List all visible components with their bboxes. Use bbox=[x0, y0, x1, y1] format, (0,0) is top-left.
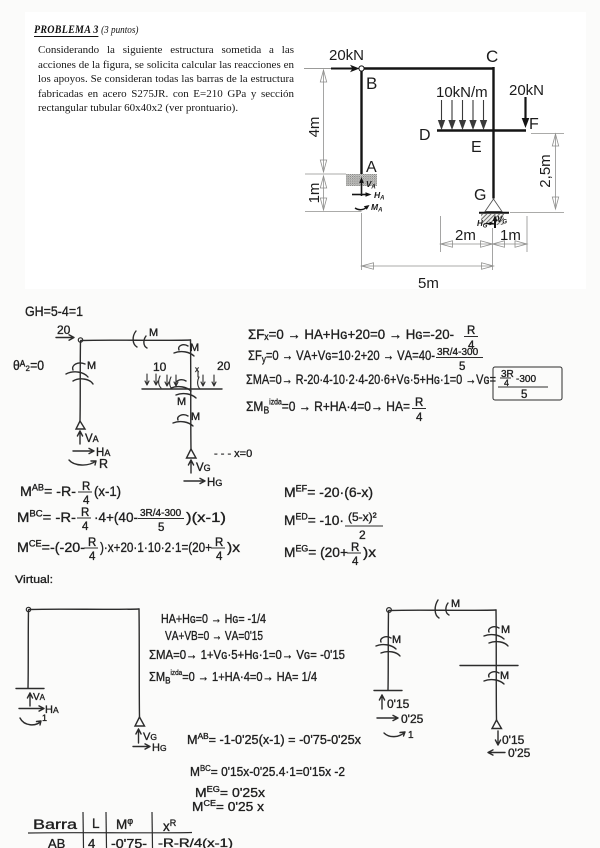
sk2 top chord bbox=[29, 608, 139, 611]
dim 4m line bbox=[323, 70, 325, 172]
svg-text:M: M bbox=[500, 670, 509, 682]
svg-text:HG: HG bbox=[152, 742, 167, 754]
support A hatched block bbox=[346, 174, 377, 186]
sk3 arrow left 0'25 bbox=[488, 750, 505, 755]
svg-text:(5-x)²: (5-x)² bbox=[348, 510, 377, 524]
member C-G (right column) bbox=[492, 67, 494, 199]
M_CE fraction bars bbox=[84, 547, 98, 549]
svg-text:MBC= -R-: MBC= -R- bbox=[17, 509, 76, 526]
svg-text:R: R bbox=[82, 481, 90, 493]
svg-text:1: 1 bbox=[42, 713, 47, 723]
sk1 R moment arc bbox=[69, 460, 96, 465]
sk3 M curl top chord bbox=[435, 600, 449, 618]
svg-text:MAB= -1-0'25(x-1) = -0'75-0'25: MAB= -1-0'25(x-1) = -0'75-0'25x bbox=[187, 731, 361, 747]
PRINTED DIAGRAM bbox=[304, 47, 544, 230]
svg-text:MA: MA bbox=[371, 202, 382, 214]
svg-text:-0'75-: -0'75- bbox=[111, 836, 147, 848]
svg-text:VA: VA bbox=[85, 433, 99, 445]
svg-text:1m: 1m bbox=[306, 183, 323, 204]
table vline 3 bbox=[151, 812, 154, 848]
sk1 pin circle at B bbox=[78, 338, 82, 342]
M_EG fraction bar bbox=[347, 552, 361, 554]
svg-text:20kN: 20kN bbox=[509, 82, 544, 99]
svg-text:1: 1 bbox=[408, 730, 414, 741]
svg-text:G: G bbox=[474, 187, 486, 204]
svg-text:2m: 2m bbox=[455, 227, 476, 244]
svg-text:5: 5 bbox=[158, 522, 164, 534]
reaction V_A arrow bbox=[361, 180, 363, 196]
dim 1m line (left) bbox=[323, 176, 325, 210]
sk1 right column bbox=[190, 340, 193, 449]
svg-text:4: 4 bbox=[416, 412, 423, 424]
sk1 M curl right column top bbox=[174, 345, 194, 356]
sk1 M curl left column bbox=[66, 363, 93, 384]
TABLE bbox=[33, 816, 233, 848]
sk3 arrow up 0'15 bbox=[379, 695, 384, 709]
svg-text:HG: HG bbox=[207, 477, 222, 489]
support G pin triangle bbox=[485, 199, 502, 212]
sk3 M curl right column low bbox=[484, 672, 504, 684]
extension line top of 2,5m bbox=[531, 133, 564, 135]
sk3 right column bbox=[495, 610, 498, 720]
svg-text:0'25: 0'25 bbox=[401, 712, 424, 726]
svg-text:- - - x=0: - - - x=0 bbox=[214, 448, 252, 460]
svg-text:MCE=-(-20-: MCE=-(-20- bbox=[17, 539, 85, 556]
dim 5m line bbox=[362, 265, 494, 267]
sk3 arrow down 0'15 bbox=[495, 731, 500, 745]
svg-text:)(x-1): )(x-1) bbox=[186, 509, 226, 525]
svg-text:4: 4 bbox=[88, 836, 95, 848]
svg-text:(x-1): (x-1) bbox=[94, 483, 121, 499]
M_ED fraction bar bbox=[345, 525, 383, 527]
table vline 2 bbox=[105, 812, 108, 848]
svg-text:4: 4 bbox=[89, 551, 96, 563]
svg-text:M: M bbox=[177, 396, 186, 408]
reaction M_A moment arc bbox=[355, 207, 367, 210]
svg-text:MED= -10·: MED= -10· bbox=[284, 512, 344, 529]
svg-text:4: 4 bbox=[216, 551, 223, 563]
sk3 M curl right column top bbox=[484, 627, 508, 646]
svg-text:R: R bbox=[81, 507, 89, 519]
svg-text:Barra: Barra bbox=[33, 817, 78, 832]
svg-text:θᴬ₂=0: θᴬ₂=0 bbox=[13, 358, 44, 373]
member B-C (top chord) bbox=[362, 67, 494, 69]
svg-text:5m: 5m bbox=[418, 275, 439, 292]
svg-text:ΣFy=0 → VА+Vɢ=10·2+20 → VА=40-: ΣFy=0 → VА+Vɢ=10·2+20 → VА=40- bbox=[248, 347, 435, 366]
svg-text:ΣMА=0→ R-20·4-10·2·4-20·6+Vɢ·5: ΣMА=0→ R-20·4-10·2·4-20·6+Vɢ·5+Hɢ·1=0 →V… bbox=[246, 371, 496, 387]
sk2 V_G arrow bbox=[136, 729, 141, 743]
svg-text:·4+(40-: ·4+(40- bbox=[94, 509, 138, 525]
svg-text:R: R bbox=[88, 537, 96, 549]
sk3 fixed base bbox=[374, 690, 402, 692]
M-EQUATIONS LEFT bbox=[17, 481, 240, 563]
svg-text:4: 4 bbox=[83, 495, 90, 507]
load 20kN at F: arrow bbox=[524, 97, 526, 121]
svg-text:R: R bbox=[415, 397, 423, 409]
svg-text:)·x+20·1·10·2·1=(20+: )·x+20·1·10·2·1=(20+ bbox=[100, 539, 212, 555]
sk2 H_A arrow bbox=[19, 706, 44, 711]
sk1 M curl right column mid bbox=[171, 380, 196, 398]
svg-text:M: M bbox=[451, 598, 460, 610]
svg-text:MEF= -20·(6-x): MEF= -20·(6-x) bbox=[284, 484, 373, 501]
sk1 support triangle A bbox=[76, 421, 85, 429]
svg-text:0'15: 0'15 bbox=[502, 733, 525, 747]
HANDWRITTEN WORK bbox=[13, 303, 83, 373]
sk1 M curl right column low bbox=[173, 415, 193, 426]
sk3 arrow right 0'25 bbox=[377, 715, 398, 720]
support G base line bbox=[479, 212, 509, 214]
svg-text:2,5m: 2,5m bbox=[537, 154, 554, 187]
distributed load arrows bbox=[439, 100, 487, 129]
sk1 V_A arrow bbox=[77, 431, 82, 444]
svg-text:20: 20 bbox=[57, 323, 71, 337]
sk2 V_A arrow bbox=[27, 693, 32, 706]
svg-text:C: C bbox=[486, 47, 498, 66]
svg-text:MEG= (20+: MEG= (20+ bbox=[284, 544, 348, 561]
sk1 top chord bbox=[81, 339, 191, 342]
svg-text:R: R bbox=[99, 457, 108, 471]
sk2 H_G arrow bbox=[133, 744, 150, 749]
sk1 H_G arrow bbox=[184, 478, 205, 483]
svg-text:M: M bbox=[87, 360, 96, 372]
svg-text:-300: -300 bbox=[516, 374, 536, 385]
M-EQUATIONS RIGHT bbox=[284, 484, 377, 569]
hand sketch 3 (virtual moments frame) bbox=[374, 600, 518, 755]
svg-text:D: D bbox=[419, 127, 431, 144]
support G hatched block bbox=[481, 214, 504, 225]
dim 1m (bottom) line bbox=[493, 243, 528, 245]
sk3 beam stub bbox=[460, 665, 518, 667]
svg-text:5: 5 bbox=[521, 389, 527, 401]
svg-text:4m: 4m bbox=[306, 117, 323, 138]
svg-text:4: 4 bbox=[352, 556, 359, 568]
svg-text:MAB= -R-: MAB= -R- bbox=[20, 483, 76, 500]
svg-text:HА+Hɢ=0 → Hɢ= -1/4: HА+Hɢ=0 → Hɢ= -1/4 bbox=[161, 611, 266, 626]
extension line x=527 (1m right) bbox=[526, 216, 528, 252]
svg-text:3R/4-300: 3R/4-300 bbox=[437, 347, 479, 358]
svg-text:A: A bbox=[366, 159, 377, 176]
extension line left of 20kN arrow bbox=[304, 68, 331, 70]
eq SumFy fraction bar bbox=[436, 357, 483, 359]
svg-text:ΣMBizda=0 → 1+HА·4=0→ HА= 1/4: ΣMBizda=0 → 1+HА·4=0→ HА= 1/4 bbox=[149, 668, 317, 687]
svg-text:HA: HA bbox=[374, 190, 384, 202]
svg-text:M: M bbox=[392, 634, 401, 646]
svg-text:M: M bbox=[501, 624, 510, 636]
sk2 pin circle bbox=[26, 607, 30, 611]
svg-text:10: 10 bbox=[153, 360, 167, 374]
dim 2m line bbox=[441, 243, 493, 245]
svg-text:R: R bbox=[215, 537, 223, 549]
VIRTUAL SECTION bbox=[15, 574, 53, 586]
svg-text:VA: VA bbox=[33, 692, 46, 703]
sk1 support triangle G bbox=[187, 449, 197, 458]
svg-text:R: R bbox=[467, 325, 475, 337]
svg-text:GH=5-4=1: GH=5-4=1 bbox=[25, 303, 83, 319]
extension line below A down to 5m dim bbox=[361, 213, 363, 270]
eq SumMA fraction bar main bbox=[498, 386, 548, 388]
svg-text:4: 4 bbox=[82, 521, 89, 533]
hand sketch 1 (real loads frame) bbox=[56, 331, 222, 484]
svg-text:)x: )x bbox=[227, 539, 240, 555]
svg-text:L: L bbox=[92, 816, 100, 831]
sk1 distributed load arrows bbox=[145, 371, 216, 389]
sk2 support triangle G bbox=[135, 717, 145, 726]
svg-text:Mφ: Mφ bbox=[116, 816, 133, 832]
sk1 V_G arrow bbox=[188, 460, 193, 473]
svg-text:-R-R/4(x-1): -R-R/4(x-1) bbox=[158, 836, 233, 848]
svg-text:B: B bbox=[366, 74, 377, 93]
sk3 left column bbox=[387, 611, 390, 690]
svg-text:20: 20 bbox=[217, 359, 231, 373]
M_AB fraction bar bbox=[78, 491, 92, 493]
sk3 pin circle bbox=[387, 608, 392, 613]
VIRTUAL EQUATIONS bbox=[149, 611, 361, 814]
svg-text:10kN/m: 10kN/m bbox=[436, 84, 488, 101]
svg-text:E: E bbox=[471, 139, 482, 156]
extension line below G bbox=[492, 228, 494, 270]
sk1 left column bbox=[79, 341, 82, 421]
svg-text:ΣMА=0→ 1+Vɢ·5+Hɢ·1=0→ Vɢ= -0'1: ΣMА=0→ 1+Vɢ·5+Hɢ·1=0→ Vɢ= -0'15 bbox=[149, 647, 345, 662]
svg-text:M: M bbox=[190, 342, 199, 354]
extension line bottom of 2,5m bbox=[510, 212, 564, 214]
svg-text:0'25: 0'25 bbox=[508, 746, 531, 760]
extension line x=440 (2m left) bbox=[440, 216, 442, 252]
svg-text:ΣFₓ=0 → HА+Hɢ+20=0 → Hɢ=-20-: ΣFₓ=0 → HА+Hɢ+20=0 → Hɢ=-20- bbox=[248, 326, 454, 342]
sk3 top chord bbox=[389, 609, 496, 612]
svg-text:1m: 1m bbox=[500, 227, 521, 244]
svg-text:xR: xR bbox=[163, 818, 177, 834]
svg-text:R: R bbox=[351, 542, 359, 554]
sk1 M curl top chord bbox=[133, 331, 147, 348]
eq SumMA box bbox=[493, 367, 562, 400]
svg-text:VА+VВ=0 → VА=0'15: VА+VВ=0 → VА=0'15 bbox=[165, 628, 263, 643]
svg-text:M: M bbox=[191, 411, 200, 423]
member D-E-F (beam) bbox=[437, 129, 526, 131]
sk2 fixed base at A bbox=[16, 688, 44, 690]
eq SumMA fraction bar small bbox=[500, 377, 511, 379]
dim 2,5m line bbox=[555, 134, 557, 209]
EQUATIONS BLOCK 1 bbox=[246, 325, 536, 424]
svg-text:VG: VG bbox=[497, 215, 507, 226]
eq SumMB fraction bar bbox=[412, 408, 426, 410]
reaction H_A arrow bbox=[352, 194, 368, 196]
sk2 left column bbox=[27, 610, 30, 688]
table header underline bbox=[28, 832, 192, 835]
sk2 right column bbox=[138, 609, 141, 717]
M_BC fraction bars bbox=[77, 517, 91, 519]
svg-text:3R/4-300: 3R/4-300 bbox=[140, 508, 182, 519]
sk3 M curl left column bbox=[376, 637, 400, 656]
svg-text:ΣMBizda=0 → R+HА·4=0→ HА=: ΣMBizda=0 → R+HА·4=0→ HА= bbox=[246, 398, 410, 417]
extension line at base level (1m) bbox=[305, 211, 362, 213]
dimension lines (thin grey) bbox=[305, 70, 564, 270]
svg-text:M: M bbox=[149, 327, 158, 339]
hand sketch 2 (virtual unit load frame) bbox=[16, 607, 150, 749]
svg-text:HA: HA bbox=[45, 704, 59, 716]
sk1 load arrow 20 bbox=[56, 335, 74, 340]
svg-text:x: x bbox=[195, 365, 199, 374]
sk1 beam DEF bbox=[142, 388, 222, 390]
extension line at A level bbox=[305, 173, 346, 175]
svg-text:20kN: 20kN bbox=[329, 47, 364, 64]
load 20kN at B: arrow bbox=[331, 68, 354, 70]
svg-text:F: F bbox=[529, 116, 539, 133]
member B-A (left column) bbox=[360, 67, 362, 174]
svg-text:Virtual:: Virtual: bbox=[15, 574, 53, 586]
table vline 1 bbox=[82, 812, 85, 848]
svg-text:AB: AB bbox=[48, 836, 65, 848]
reaction V_G arrow bbox=[494, 218, 496, 228]
sk3 support triangle bbox=[492, 720, 502, 729]
svg-text:0'15: 0'15 bbox=[387, 697, 410, 711]
reaction H_G arrow bbox=[486, 223, 492, 225]
sk1 H_A arrow bbox=[73, 448, 94, 453]
svg-text:VG: VG bbox=[196, 462, 211, 474]
pin circle at B bbox=[359, 66, 364, 71]
svg-text:MCE= 0'25 x: MCE= 0'25 x bbox=[192, 798, 265, 814]
sk3 moment 1 arc bbox=[384, 732, 405, 737]
svg-text:MBC= 0'15x-0'25.4·1=0'15x -2: MBC= 0'15x-0'25.4·1=0'15x -2 bbox=[190, 763, 345, 779]
svg-text:)x: )x bbox=[363, 544, 376, 560]
eq SumFx fraction bar bbox=[464, 336, 478, 338]
sk2 moment 1 arc bbox=[20, 718, 41, 725]
svg-text:2: 2 bbox=[359, 528, 366, 542]
